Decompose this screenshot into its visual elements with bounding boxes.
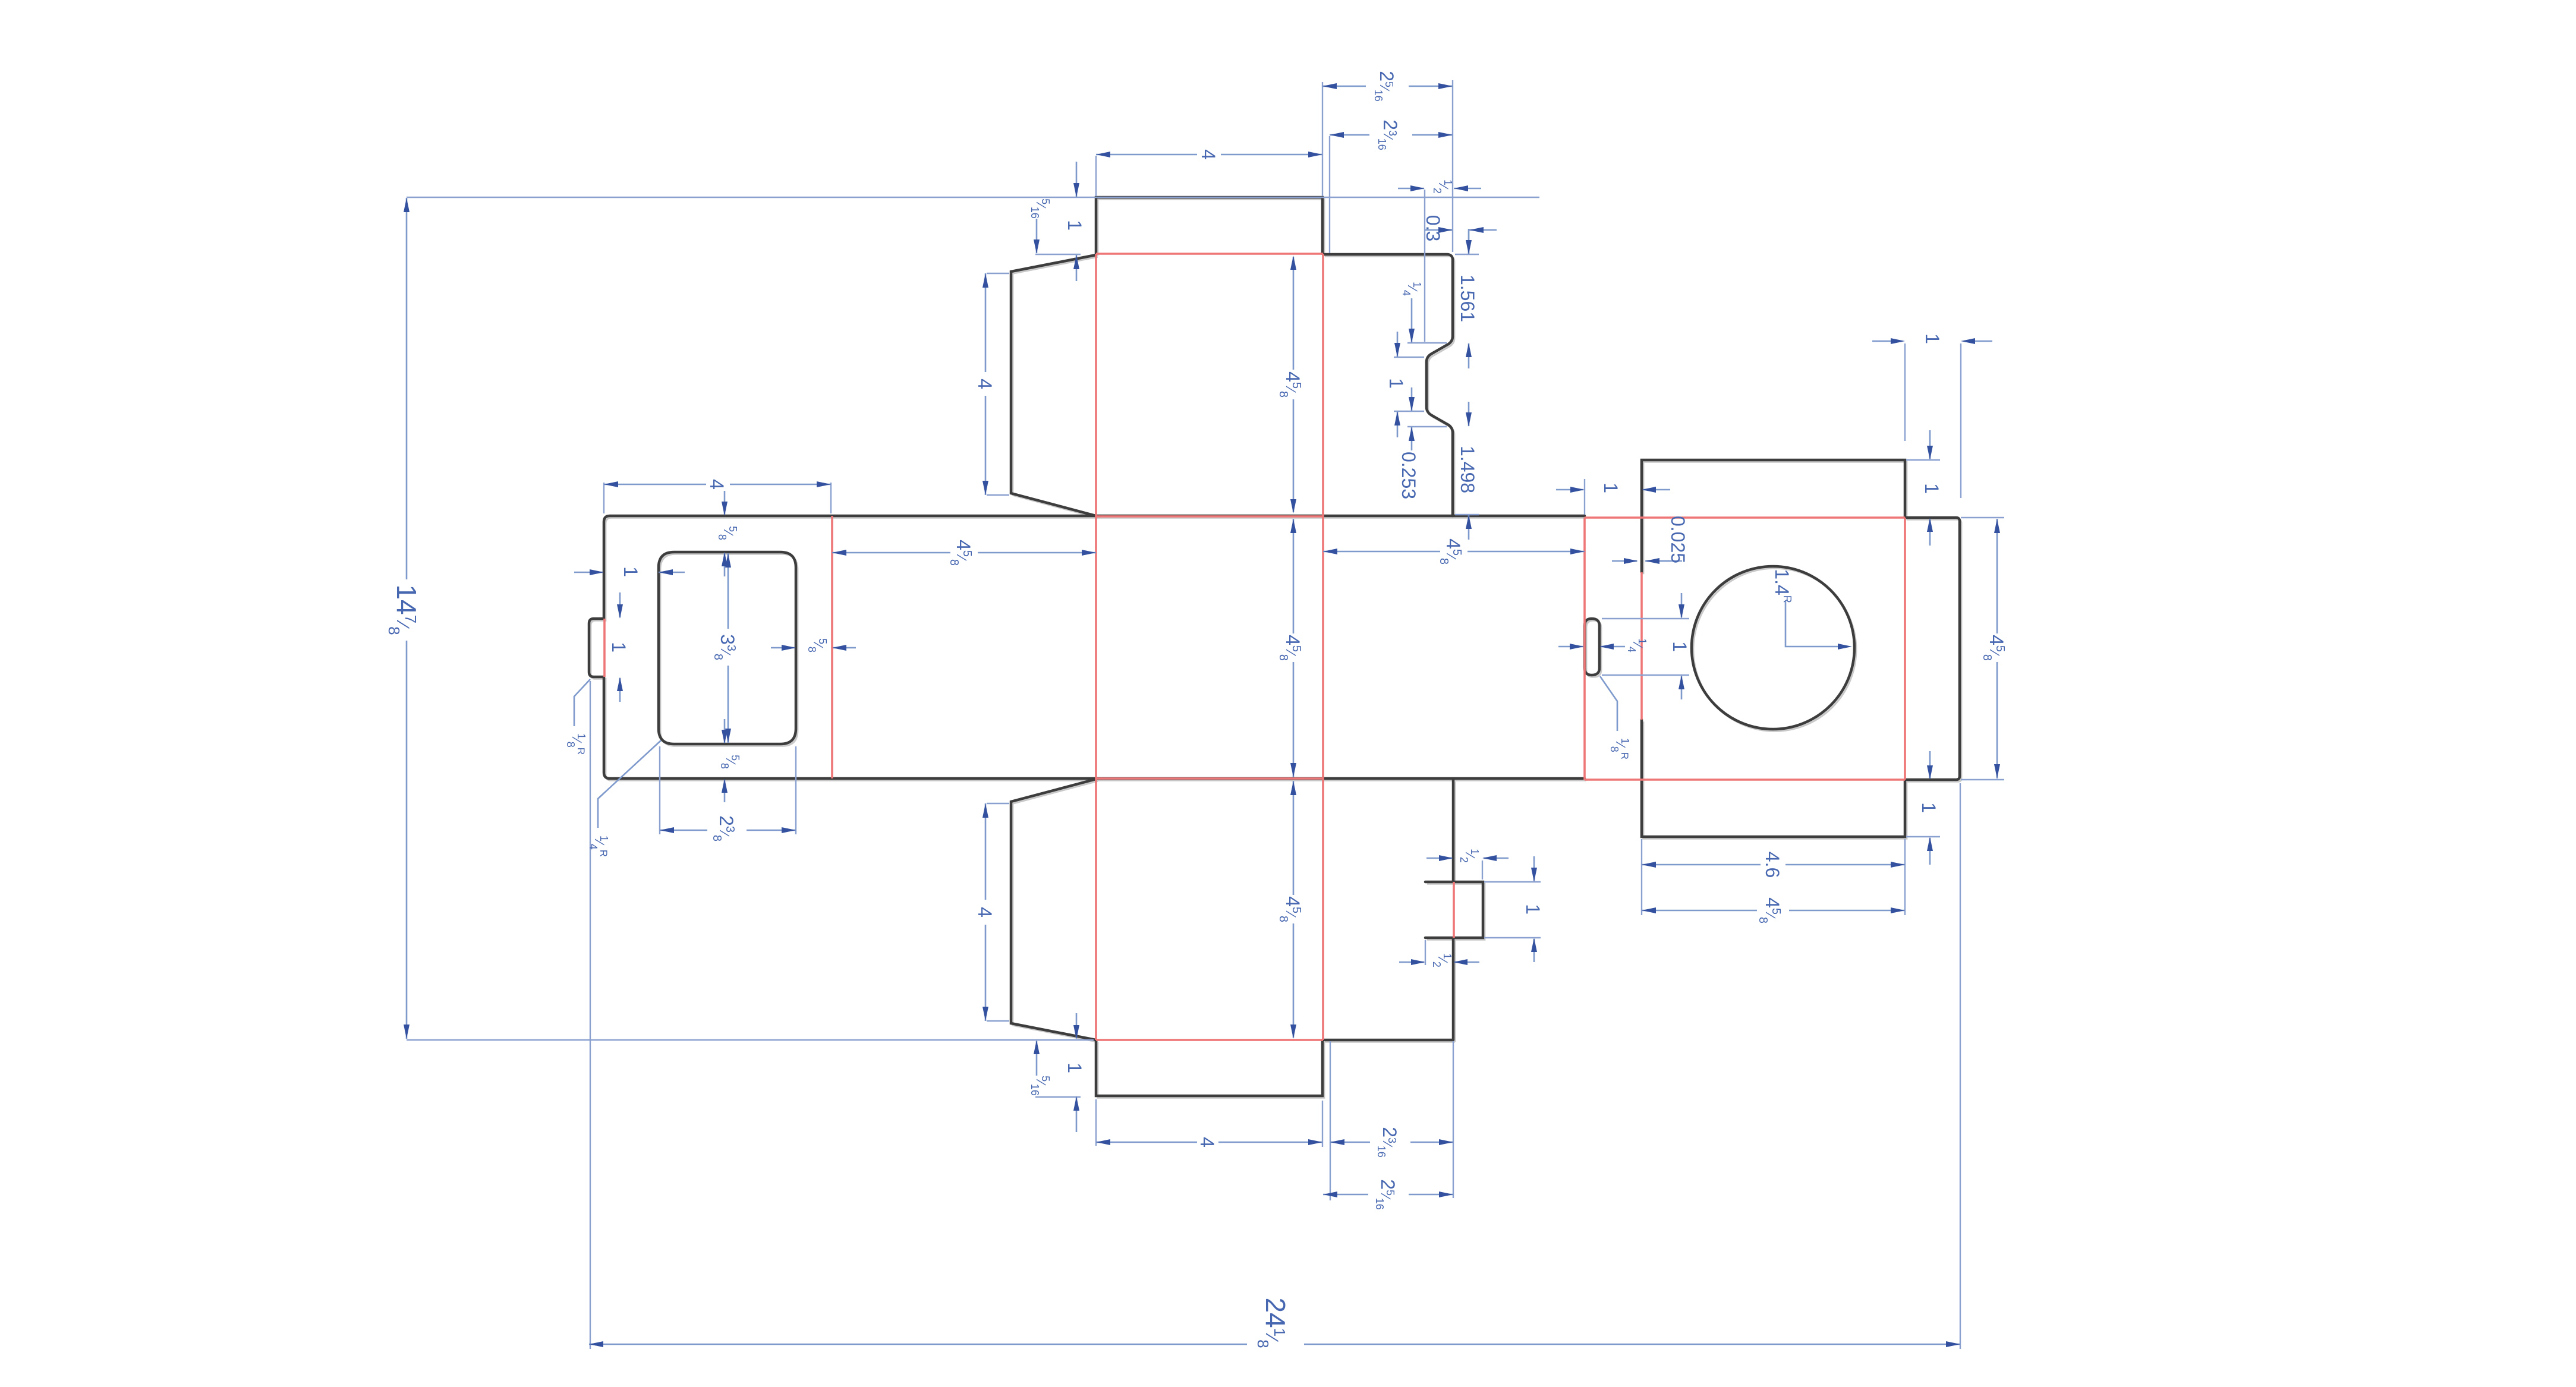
leader 1.4 R bbox=[1785, 601, 1846, 647]
svg-text:0.3: 0.3 bbox=[1422, 215, 1444, 241]
1 tab vertical bbox=[619, 592, 621, 702]
svg-text:1: 1 bbox=[1600, 483, 1621, 493]
crease right panel partial fold x=2762 bbox=[1640, 572, 1643, 720]
2 5/16 top row bbox=[1322, 86, 1453, 87]
1 right panel top bbox=[1929, 430, 1931, 546]
1 right strip bbox=[1556, 489, 1670, 491]
crease left lock tab fold x=1017 bbox=[603, 619, 606, 677]
2 3/8 window width bbox=[660, 830, 796, 831]
dimension lines (blue) bbox=[407, 86, 1997, 1344]
leader 1/4 R left bbox=[598, 740, 661, 828]
circle cutout bbox=[1692, 566, 1854, 729]
4 5/8 right vertical bbox=[1996, 519, 1998, 778]
24 1/8 horizontal bbox=[589, 1344, 1960, 1345]
svg-text:1.561: 1.561 bbox=[1457, 275, 1478, 322]
right end panel outline bbox=[1642, 460, 1905, 837]
crease left panel fold x=1400 bbox=[831, 516, 833, 778]
2 3/16 second row bbox=[1330, 134, 1453, 136]
4.6 bbox=[1642, 864, 1905, 866]
1 notch middle bbox=[1397, 332, 1399, 437]
4 5/8 bottom panel vertical bbox=[1293, 781, 1295, 1038]
leader 1/8 R slot bbox=[1600, 676, 1617, 731]
svg-text:1: 1 bbox=[620, 566, 641, 577]
4 5/8 top panel vertical bbox=[1293, 257, 1295, 512]
1 tab width top bbox=[1872, 341, 1992, 342]
1 left window bbox=[574, 572, 685, 573]
svg-text:4.6: 4.6 bbox=[1762, 852, 1783, 878]
svg-text:1: 1 bbox=[1918, 802, 1939, 813]
window cutout (rounded rect) bbox=[659, 552, 796, 744]
4 top trapezoid bbox=[985, 273, 987, 495]
0.3 bbox=[1425, 229, 1497, 231]
1/4 slot bbox=[1558, 646, 1625, 648]
crease bottom tab fold x=2446 bbox=[1453, 882, 1455, 938]
svg-text:4: 4 bbox=[1198, 149, 1219, 160]
4 5/8 band center vertical bbox=[1293, 519, 1295, 777]
cut lines (black) bbox=[589, 197, 1960, 1096]
svg-text:1: 1 bbox=[1522, 904, 1544, 915]
crease top tuck fold y=427 bbox=[1096, 253, 1323, 255]
top-left dust flap (trapezoid) bbox=[1011, 255, 1096, 516]
svg-text:1.498: 1.498 bbox=[1457, 446, 1478, 493]
1/4 arrow bbox=[1411, 298, 1413, 342]
2 3/16 bottom row A bbox=[1330, 1142, 1453, 1143]
1/2 notch bbox=[1398, 188, 1481, 190]
crease right glue-tab fold x=3205 bbox=[1904, 518, 1906, 780]
3 3/8 window bbox=[728, 553, 729, 743]
bottom-right flap with lock tab bbox=[1323, 780, 1483, 1040]
1.498 bbox=[1468, 402, 1470, 540]
crease right band top fold y=871 bbox=[1585, 516, 1905, 519]
svg-text:1: 1 bbox=[1385, 378, 1407, 389]
svg-text:1: 1 bbox=[1922, 333, 1943, 344]
crease center-right fold x=2226 bbox=[1322, 254, 1324, 1040]
4 left panel top bbox=[604, 484, 831, 486]
1/2 tab bottom bbox=[1399, 962, 1479, 963]
bottom tuck flap rectangle bbox=[1096, 1040, 1322, 1096]
extension lines (light blue) bbox=[407, 80, 2004, 1349]
top-right notch flap outline bbox=[1323, 254, 1453, 516]
svg-text:4: 4 bbox=[706, 479, 728, 490]
arrowheads bbox=[404, 83, 2000, 1347]
0.025 bbox=[1612, 560, 1671, 562]
leader 1/8 R left bbox=[574, 679, 590, 726]
bottom-left dust flap (trapezoid) bbox=[1011, 779, 1096, 1040]
lock slot bbox=[1585, 619, 1599, 675]
2 5/16 bottom row B bbox=[1323, 1194, 1453, 1196]
shadow copies of cut lines bbox=[591, 199, 1961, 1098]
dimension labels (rotated) bbox=[385, 71, 2007, 1348]
crease bottom tuck fold y=1750 bbox=[1096, 1039, 1323, 1041]
crease lines (red) bbox=[604, 254, 1905, 1040]
4 5/8 band right bbox=[1323, 551, 1585, 553]
1 right panel bottom bbox=[1929, 751, 1931, 865]
5/8 left top bbox=[724, 491, 726, 576]
band outline with left panel and left lock tab bbox=[589, 516, 1585, 778]
svg-text:4: 4 bbox=[1196, 1137, 1218, 1148]
1 slot vertical bbox=[1681, 593, 1683, 699]
1 tab right bbox=[1533, 856, 1535, 962]
crease band top fold y=869 bbox=[1096, 515, 1323, 518]
4 top tuck bbox=[1096, 154, 1322, 156]
0.253 bbox=[1411, 387, 1413, 450]
svg-text:1: 1 bbox=[1921, 483, 1942, 494]
crease right side fold x=2666 bbox=[1583, 518, 1586, 780]
4 5/8 band left bbox=[832, 552, 1096, 554]
1/2 tab top bbox=[1426, 858, 1509, 859]
4 bottom trapezoid bbox=[985, 803, 987, 1021]
1.561 bbox=[1468, 229, 1470, 368]
5/16 and 1 top-left arrows bbox=[1037, 162, 1076, 281]
top tuck flap rectangle bbox=[1096, 197, 1322, 254]
svg-text:1: 1 bbox=[1669, 641, 1690, 652]
4 bottom tuck bbox=[1096, 1142, 1322, 1143]
5/8 window right bbox=[771, 647, 856, 649]
svg-text:1: 1 bbox=[1064, 1063, 1085, 1073]
svg-text:4: 4 bbox=[974, 907, 996, 918]
svg-text:1: 1 bbox=[1064, 220, 1085, 231]
4 5/8 right bottom bbox=[1642, 910, 1905, 912]
svg-text:0.253: 0.253 bbox=[1398, 452, 1419, 499]
svg-text:4: 4 bbox=[974, 379, 996, 389]
crease right band bottom fold y=1312 bbox=[1585, 778, 1905, 781]
crease band bottom fold y=1310 bbox=[1096, 777, 1323, 780]
right glue tab bbox=[1905, 518, 1960, 780]
5/8 left bottom bbox=[724, 719, 726, 802]
14 7/8 vertical bbox=[406, 198, 408, 1039]
svg-text:1: 1 bbox=[608, 642, 629, 652]
crease center-left fold x=1844 bbox=[1095, 254, 1097, 1040]
svg-text:0.025: 0.025 bbox=[1667, 516, 1689, 563]
5/16 and 1 bottom-left arrows bbox=[1037, 1013, 1076, 1132]
